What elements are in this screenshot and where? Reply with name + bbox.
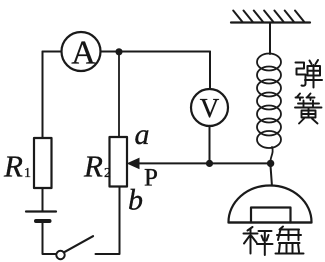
ceiling line [231, 21, 310, 23]
battery long plate [26, 210, 56, 212]
wire battery to switch [43, 223, 57, 254]
wiper link wire from pan node [138, 162, 271, 164]
wire junction down to R2 top [118, 52, 120, 137]
spring bottom link to node [271, 147, 273, 160]
svg-text:1: 1 [24, 166, 31, 181]
wiper arrowhead P [127, 158, 140, 170]
wire R1 bottom to battery [42, 188, 44, 210]
pan bottom line [229, 221, 312, 223]
battery short plate [36, 219, 50, 223]
node junction above R2 [115, 48, 122, 55]
switch lever [64, 236, 93, 252]
pan inner rectangle [251, 208, 291, 223]
svg-text:2: 2 [104, 166, 111, 181]
resistor R2 box [110, 137, 128, 187]
wire top horizontal to voltmeter corner [119, 51, 210, 53]
wire left vertical down to R1 [42, 52, 44, 139]
svg-text:A: A [71, 35, 96, 72]
wire node down to pan [271, 167, 272, 186]
node junction spring/pan [267, 160, 274, 167]
svg-text:b: b [128, 184, 143, 217]
wire ammeter right to junction [101, 51, 120, 53]
switch pivot circle [56, 251, 64, 259]
wire voltmeter bottom to wiper line [209, 126, 211, 164]
node junction voltmeter/wiper [206, 160, 213, 167]
svg-text:R: R [3, 149, 23, 184]
wire top-left horizontal (battery branch to ammeter) [43, 51, 62, 53]
label 簧 (spring char 2) [295, 94, 322, 124]
voltmeter U2 circle [191, 89, 228, 126]
label 秤 (pan char 1) [244, 227, 273, 255]
label 弹 (spring char 1) [296, 60, 323, 88]
resistor R1 box [34, 138, 52, 188]
label 盘 (pan char 2) [276, 227, 304, 254]
wire corner down to voltmeter top [209, 52, 211, 90]
ceiling hatch marks [233, 11, 304, 23]
wire ceiling to spring top [269, 23, 271, 55]
pan dome [229, 186, 312, 223]
ammeter U1 circle [62, 32, 101, 71]
svg-text:V: V [200, 93, 220, 123]
svg-text:P: P [144, 165, 158, 192]
svg-text:R: R [83, 149, 103, 184]
spring coil [257, 54, 281, 149]
wire switch fixed contact to R2 bottom [96, 187, 120, 255]
svg-text:a: a [135, 118, 150, 151]
